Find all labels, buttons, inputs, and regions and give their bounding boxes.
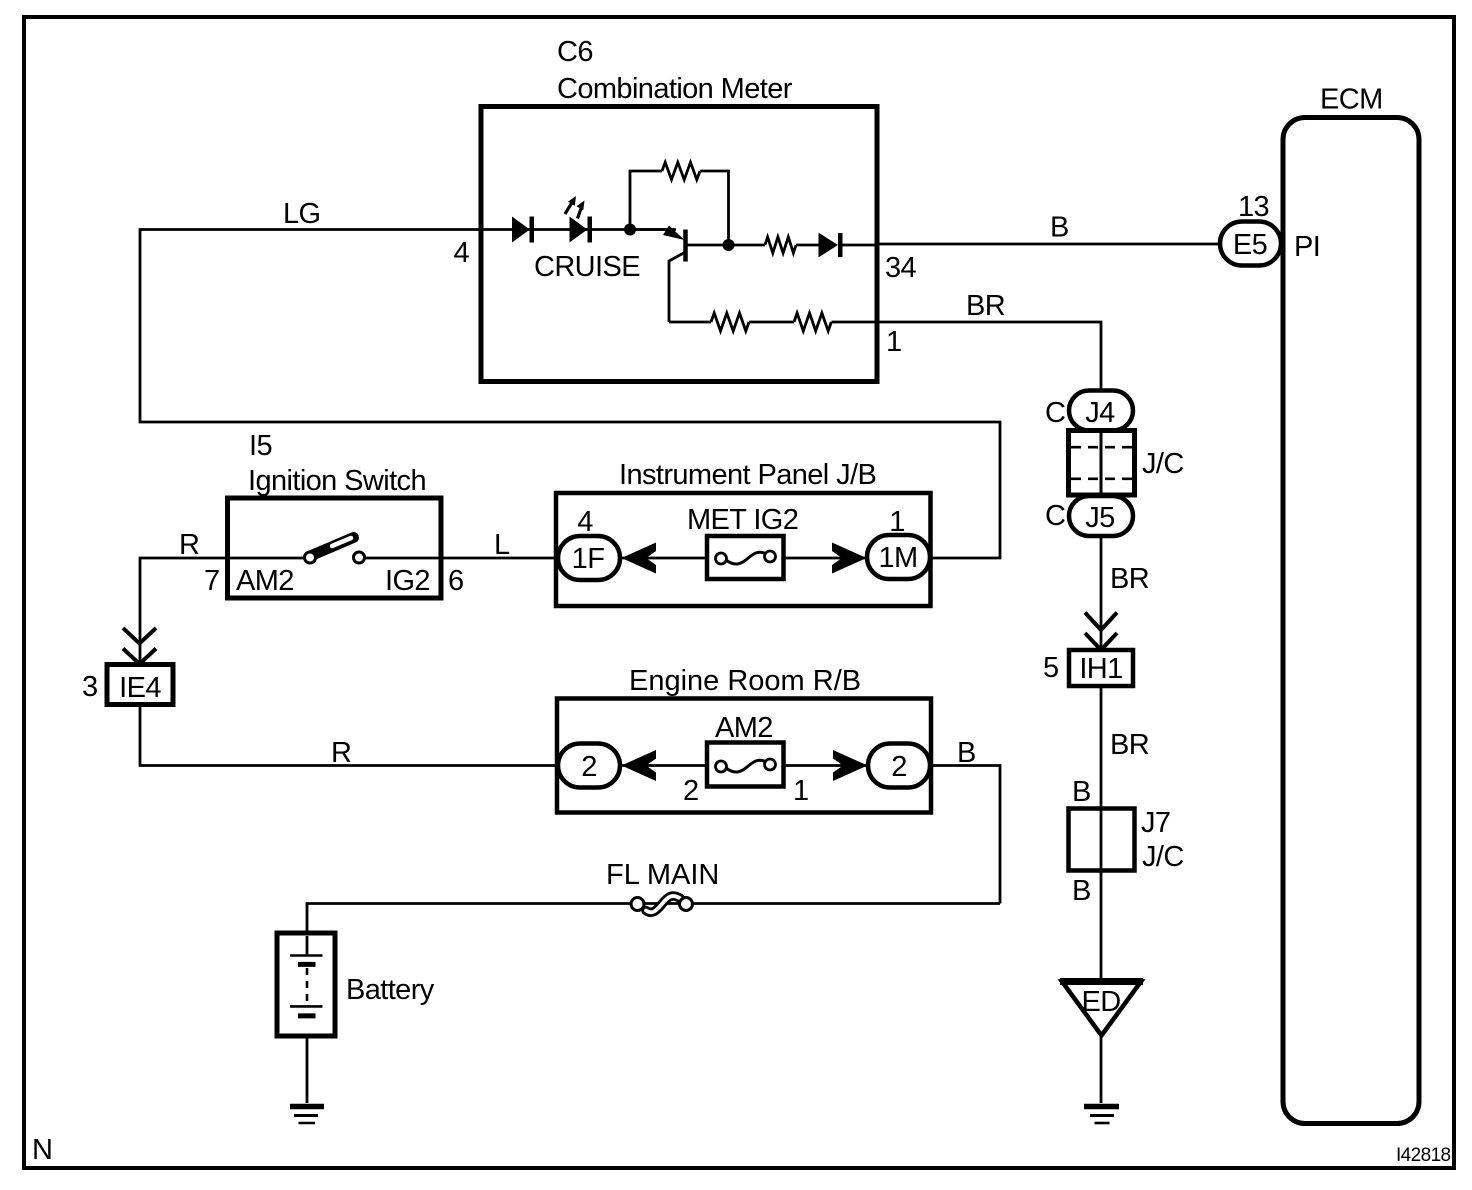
svg-text:BR: BR [1110,729,1149,761]
svg-text:IG2: IG2 [385,565,430,597]
ignition switch I5 box [228,498,442,598]
connector 2 left [558,744,620,788]
svg-text:C6: C6 [557,36,593,68]
wire meter pin4 internal [481,228,676,231]
wire through J/C J4-J5 [1100,410,1103,516]
wire LG: meter pin4 left, down, across to 1M riser [140,230,1000,559]
svg-text:FL MAIN: FL MAIN [606,859,719,891]
wire inside Engine Room R/B [619,764,869,767]
wire feedback resistor loop [630,171,729,245]
svg-text:2: 2 [581,751,597,783]
transistor Q1 [630,228,668,231]
wire B: Engine Room R/B to FL MAIN [928,766,1000,904]
ground symbol right [1084,1104,1119,1110]
node dot base [624,224,636,236]
svg-text:I42818: I42818 [1396,1145,1451,1166]
svg-text:34: 34 [885,252,917,284]
arrow right instrument [832,543,867,574]
connector E5 [1220,222,1281,266]
svg-text:R: R [179,529,199,561]
chevron arrows above IH1 [1085,613,1117,631]
arrow right engine [833,750,868,781]
connector J5 [1069,496,1133,536]
svg-text:3: 3 [82,671,98,703]
resistor emitter 1 [711,313,749,331]
wire FL MAIN to battery [307,904,1000,957]
switch lever [313,538,354,556]
svg-text:R: R [331,737,351,769]
diode D1 [513,218,530,242]
svg-text:6: 6 [448,565,464,597]
wire B: meter pin34 to E5 [877,243,1221,246]
resistor emitter 2 [794,313,831,331]
svg-text:J4: J4 [1085,397,1115,429]
svg-text:Battery: Battery [346,974,435,1006]
svg-text:Ignition Switch: Ignition Switch [248,465,426,497]
svg-text:4: 4 [453,237,469,269]
svg-text:B: B [1072,875,1091,907]
svg-text:4: 4 [577,506,593,538]
svg-text:B: B [1072,776,1091,808]
svg-text:MET IG2: MET IG2 [687,504,798,536]
Engine Room R/B box [557,699,931,813]
svg-text:IE4: IE4 [119,672,161,704]
ground symbol battery [290,1104,324,1110]
svg-text:J5: J5 [1085,502,1114,534]
svg-text:5: 5 [1043,652,1059,684]
resistor output [765,237,796,253]
svg-text:B: B [1050,212,1069,244]
svg-text:ED: ED [1081,986,1120,1018]
arrow left instrument [622,543,657,574]
svg-text:N: N [32,1134,52,1166]
svg-text:B: B [957,737,976,769]
svg-text:J/C: J/C [1142,448,1184,480]
fuse MET IG2 [707,536,784,579]
svg-text:IH1: IH1 [1079,653,1122,685]
svg-text:7: 7 [204,565,220,597]
LED arrow 2 [578,207,582,219]
Instrument Panel J/B box [556,493,931,606]
svg-text:BR: BR [966,290,1005,322]
ground triangle ED [1062,982,1141,1036]
wire emitter bottom [669,321,877,324]
svg-text:2: 2 [683,775,699,807]
wire BR: J5 to IH1 [1100,534,1103,651]
wire BR: IH1 to J7 [1100,685,1103,809]
arrow left engine [622,750,657,781]
svg-text:Combination Meter: Combination Meter [557,73,793,105]
LED arrow 1 [565,203,572,215]
svg-text:1: 1 [793,775,809,807]
connector 2 right [868,744,930,788]
connector IE4 [107,665,173,705]
svg-text:AM2: AM2 [236,565,294,597]
wire battery to ground [306,1016,309,1103]
connector 1F [558,536,620,580]
svg-text:L: L [494,529,510,561]
LED CRUISE diode [570,218,587,242]
svg-text:J/C: J/C [1142,841,1184,873]
svg-text:CRUISE: CRUISE [534,251,640,283]
fusible link FL MAIN [646,896,681,912]
svg-text:LG: LG [283,198,321,230]
svg-text:C: C [1045,500,1065,532]
switch internal wire [227,557,441,560]
svg-text:J7: J7 [1141,807,1170,839]
wire R: ignition AM2 to IE4 [140,558,227,665]
combination meter C6 box [481,107,877,382]
node dot collector [723,239,735,251]
fuse AM2 [707,743,784,787]
svg-text:AM2: AM2 [715,712,773,744]
svg-text:2: 2 [891,751,907,783]
svg-text:PI: PI [1294,231,1320,263]
svg-text:1: 1 [886,326,902,358]
wire R: IE4 to Engine Room R/B [140,704,558,766]
connector 1M [867,535,930,579]
svg-text:Engine Room R/B: Engine Room R/B [629,665,861,697]
wire B: J7 to ED [1100,869,1103,980]
connector J4 [1069,391,1133,431]
connector IH1 [1069,650,1133,686]
battery [277,933,335,1036]
wire ED to ground [1100,1035,1103,1103]
svg-text:1F: 1F [572,543,605,575]
svg-text:1: 1 [889,506,905,538]
svg-text:ECM: ECM [1320,84,1383,116]
wire L: ignition IG2 to 1F [441,557,560,560]
svg-text:E5: E5 [1233,229,1267,261]
svg-text:1M: 1M [878,542,917,574]
junction connector J7 box [1069,809,1135,871]
ECM box [1283,118,1419,1124]
junction connector J/C box [1069,431,1135,496]
chevron arrows above IE4 [123,628,156,644]
svg-text:BR: BR [1110,563,1149,595]
svg-text:13: 13 [1238,191,1269,223]
switch contact circles [305,552,316,563]
resistor feedback [662,162,700,179]
svg-text:I5: I5 [249,430,272,462]
diode D2 output [819,234,837,257]
svg-text:Instrument Panel J/B: Instrument Panel J/B [619,459,876,491]
wire BR: meter pin1 to J4 [877,322,1101,392]
svg-text:C: C [1045,397,1065,429]
wire inside Instrument Panel J/B [619,557,868,560]
